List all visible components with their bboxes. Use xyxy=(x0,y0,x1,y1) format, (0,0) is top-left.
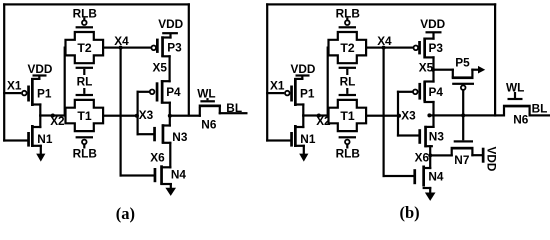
wire: X1 to P1 gate xyxy=(3,92,21,94)
power VDD (N7 drain, rotated) xyxy=(482,147,499,172)
signal RL (T2 bottom gate / T1 top gate) xyxy=(339,67,356,96)
svg-text:P3: P3 xyxy=(429,41,444,55)
svg-text:X5: X5 xyxy=(153,60,168,74)
wire: X3 to P4 and N3 gates (b) xyxy=(397,91,419,137)
signal RLB (T1 bottom gate with bubble) xyxy=(336,136,360,160)
wire: X5 to P5 source xyxy=(432,69,454,71)
wire: feedback loop from storage node to X1 (left/top/right) xyxy=(266,3,496,141)
signal RL (T2 bottom gate / T1 top gate) xyxy=(76,67,93,96)
transistor P4 (PMOS) (b) xyxy=(413,80,443,116)
svg-text:(a): (a) xyxy=(116,204,135,223)
svg-text:RLB: RLB xyxy=(73,147,97,161)
signal WL (N6 gate) (b) xyxy=(506,80,524,98)
wire X4 (b) xyxy=(366,47,414,49)
wire: storage node to N6 xyxy=(169,115,201,117)
node X2 label xyxy=(316,114,331,128)
svg-text:X1: X1 xyxy=(7,79,22,93)
wire: X4 down to N4 gate xyxy=(120,47,155,177)
signal RLB (T2 top gate with bubble) xyxy=(336,6,360,28)
transistor P3 (PMOS) (b) xyxy=(414,33,444,59)
transistor N1 (NMOS) xyxy=(27,114,53,147)
signal WL (N6 gate) xyxy=(197,87,215,101)
node X3 label (b) xyxy=(401,109,416,123)
junction X6 (b) xyxy=(428,153,432,157)
svg-text:T1: T1 xyxy=(77,109,91,123)
node X5 label xyxy=(153,60,168,74)
wire: X3 to P4 and N3 gates xyxy=(137,91,155,136)
svg-text:VDD: VDD xyxy=(420,17,445,31)
svg-text:N1: N1 xyxy=(300,132,316,146)
svg-text:P4: P4 xyxy=(429,85,444,99)
svg-text:T2: T2 xyxy=(77,41,91,55)
svg-text:N4: N4 xyxy=(428,170,444,184)
wire: storage node to N6 (b) xyxy=(428,114,504,116)
wire X4 xyxy=(103,47,151,49)
transistor P1 (PMOS) xyxy=(22,76,52,107)
svg-text:BL: BL xyxy=(226,101,242,115)
wire/node X5 (P3 drain to P4 source) xyxy=(169,55,171,82)
wire: P5 gate to storage node and N7 gate xyxy=(462,90,464,140)
junction X3 xyxy=(135,114,139,118)
power VDD (P1 source) xyxy=(291,62,316,77)
svg-text:T1: T1 xyxy=(340,109,354,123)
wire: N1 gate from loop xyxy=(3,139,28,141)
wire X2 xyxy=(302,114,329,116)
transmission gate T1 xyxy=(329,100,367,131)
wire: P1 drain to X2 xyxy=(31,103,41,116)
svg-text:X4: X4 xyxy=(114,34,129,48)
wire: N1 gate from loop xyxy=(266,139,291,141)
power VDD (P3 source) xyxy=(158,17,183,34)
transistor N3 (NMOS) xyxy=(153,115,188,144)
svg-text:N1: N1 xyxy=(37,132,53,146)
junction X3 (b) xyxy=(397,114,401,118)
transmission gate T2 xyxy=(329,32,367,63)
svg-text:P1: P1 xyxy=(37,86,52,100)
junction X4 (b) xyxy=(382,46,386,50)
node BL label (b) xyxy=(532,102,548,116)
svg-text:VDD: VDD xyxy=(291,62,316,76)
wire: feedback loop from storage node to X1 (left/top/right) xyxy=(3,3,190,141)
caption (b) xyxy=(400,203,420,222)
junction: storage node at P4/N3 drains (b) xyxy=(427,113,431,117)
ground (N1 source) xyxy=(36,145,45,162)
transistor N3 (NMOS) (b) xyxy=(418,114,444,147)
wire: X6 to N7 source xyxy=(429,154,453,156)
transistor N4 (NMOS) xyxy=(154,165,187,185)
transistor P4 (PMOS) xyxy=(150,80,181,117)
svg-text:RL: RL xyxy=(77,75,93,89)
svg-text:X3: X3 xyxy=(139,108,154,122)
wire X3 (b) xyxy=(366,115,399,117)
node X3 label xyxy=(139,108,154,122)
junction: storage node at P4/N3 drains xyxy=(168,114,172,118)
transistor P1 (PMOS) xyxy=(285,76,315,107)
svg-text:P1: P1 xyxy=(300,86,315,100)
node X2 label xyxy=(50,114,65,128)
transistor N6 (access NMOS, horizontal) xyxy=(199,100,221,131)
junction X2 xyxy=(317,114,321,118)
node X5 label (b) xyxy=(419,60,434,74)
svg-text:P5: P5 xyxy=(455,56,470,70)
power VDD (P1 source) xyxy=(28,62,53,77)
wire: X2 to T2 left arm xyxy=(327,47,329,117)
transistor N7 (NMOS, horizontal) xyxy=(451,140,474,167)
wire BL (b) xyxy=(529,114,550,116)
node X6 label xyxy=(150,151,165,165)
junction: storage node at P5/N7 gates (b) xyxy=(461,113,465,117)
svg-text:N6: N6 xyxy=(201,118,217,132)
svg-text:N6: N6 xyxy=(513,113,529,127)
svg-text:(b): (b) xyxy=(400,203,420,222)
svg-text:X5: X5 xyxy=(419,60,434,74)
svg-text:VDD: VDD xyxy=(485,147,499,172)
node BL label xyxy=(226,101,242,115)
svg-text:VDD: VDD xyxy=(158,17,183,31)
svg-text:X1: X1 xyxy=(270,79,285,93)
node X6 label (b) xyxy=(415,151,430,165)
ground (N4 source) (b) xyxy=(425,187,436,201)
svg-text:X6: X6 xyxy=(415,151,430,165)
node X4 label xyxy=(114,34,129,48)
svg-text:P4: P4 xyxy=(166,85,181,99)
transmission gate T2 xyxy=(66,32,104,63)
power VDD (P3 source) (b) xyxy=(420,17,445,33)
wire BL xyxy=(219,112,248,114)
svg-text:RLB: RLB xyxy=(336,147,360,161)
wire: P5 drain to output xyxy=(471,69,478,71)
svg-text:RL: RL xyxy=(340,75,356,89)
svg-text:X6: X6 xyxy=(150,151,165,165)
svg-text:N4: N4 xyxy=(171,167,187,181)
wire: N7 drain to VDD xyxy=(471,154,482,156)
wire X3 xyxy=(103,115,139,117)
svg-text:N3: N3 xyxy=(429,129,445,143)
svg-text:N7: N7 xyxy=(454,153,470,167)
transistor N4 (NMOS) (b) xyxy=(413,166,444,190)
svg-text:P3: P3 xyxy=(167,40,182,54)
transistor N6 (access NMOS, horizontal) (b) xyxy=(503,98,531,127)
caption (a) xyxy=(116,204,135,223)
wire: P1 drain to X2 xyxy=(294,103,304,116)
wire: X2 to T2 left arm xyxy=(64,47,66,117)
wire: X1 to P1 gate xyxy=(266,92,284,94)
wire/node X5 (b) xyxy=(432,56,434,82)
node X1 label xyxy=(7,79,22,93)
junction X5 (b) xyxy=(431,68,435,72)
junction X2 xyxy=(51,114,55,118)
node X4 label (b) xyxy=(377,34,392,48)
wire/node X6 (b) xyxy=(429,145,431,169)
transistor P5 (PMOS, horizontal) xyxy=(452,56,474,90)
ground (N4 source) xyxy=(165,183,176,196)
svg-text:VDD: VDD xyxy=(28,62,53,76)
transmission gate T1 xyxy=(66,100,104,131)
wire/node X6 (N3 source to N4 drain) xyxy=(169,142,171,169)
svg-text:X3: X3 xyxy=(401,109,416,123)
svg-text:T2: T2 xyxy=(340,41,354,55)
node X1 label xyxy=(270,79,285,93)
svg-text:X4: X4 xyxy=(377,34,392,48)
transistor N1 (NMOS) xyxy=(290,114,316,147)
output arrow (read port) xyxy=(478,66,485,74)
wire X2 xyxy=(39,114,66,116)
wire: X4 down to N4 gate (b) xyxy=(383,47,414,178)
transistor P3 (PMOS) xyxy=(151,33,182,57)
signal RLB (T2 top gate with bubble) xyxy=(73,6,97,28)
signal RLB (T1 bottom gate with bubble) xyxy=(73,136,97,160)
ground (N1 source) xyxy=(299,145,308,162)
svg-text:X2: X2 xyxy=(50,114,65,128)
junction X4 xyxy=(119,46,123,50)
svg-text:N3: N3 xyxy=(172,130,188,144)
svg-text:BL: BL xyxy=(532,102,548,116)
